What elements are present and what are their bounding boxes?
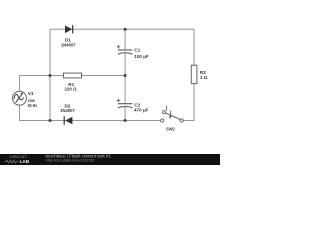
svg-text:CIRCUIT: CIRCUIT bbox=[10, 154, 28, 159]
svg-text:470 µF: 470 µF bbox=[134, 108, 149, 113]
svg-text:50 Hz: 50 Hz bbox=[28, 103, 38, 108]
node junction left R1 bbox=[49, 74, 52, 77]
capacitor C2 bbox=[117, 99, 133, 108]
node junction top C1 bbox=[124, 28, 127, 31]
svg-text:220 Ω: 220 Ω bbox=[65, 86, 77, 91]
svg-text:LAB: LAB bbox=[20, 159, 30, 164]
wire cap rail mid bbox=[124, 53, 126, 104]
svg-text:1 Ω: 1 Ω bbox=[200, 75, 208, 80]
source V1 bbox=[13, 91, 27, 105]
logo resistor zigzag bbox=[5, 160, 19, 163]
diode D1 bbox=[65, 25, 73, 33]
node junction bottom C2 bbox=[124, 119, 127, 122]
svg-text:1N4007: 1N4007 bbox=[61, 42, 76, 47]
wire cap rail top bbox=[124, 29, 126, 50]
svg-text:100 µF: 100 µF bbox=[134, 54, 149, 59]
wire middle R1 bbox=[50, 75, 125, 77]
svg-text:C1: C1 bbox=[134, 48, 140, 53]
footer bar bbox=[0, 154, 220, 165]
svg-text:http://circuitlab.com/c2st762: http://circuitlab.com/c2st762 bbox=[46, 158, 95, 163]
wire right rail upper bbox=[193, 29, 195, 65]
capacitor C1 bbox=[117, 45, 133, 54]
svg-text:V1: V1 bbox=[28, 91, 34, 96]
resistor R1 bbox=[64, 73, 82, 78]
node junction right R1 bbox=[124, 74, 127, 77]
svg-text:1N4007: 1N4007 bbox=[60, 108, 75, 113]
wire left rail bbox=[49, 29, 51, 120]
wire top: node from D1 anode rail to right rail bbox=[50, 28, 194, 30]
wire right rail lower bbox=[183, 84, 194, 121]
wire V1 top bbox=[20, 76, 51, 92]
resistor R2 bbox=[191, 65, 197, 83]
switch SW2 bbox=[161, 106, 184, 123]
wire cap rail bottom bbox=[124, 106, 126, 120]
wire bottom bbox=[20, 105, 161, 120]
node junction bottom left bbox=[49, 119, 52, 122]
diode D2 bbox=[64, 116, 72, 124]
svg-text:SW2: SW2 bbox=[166, 126, 175, 131]
